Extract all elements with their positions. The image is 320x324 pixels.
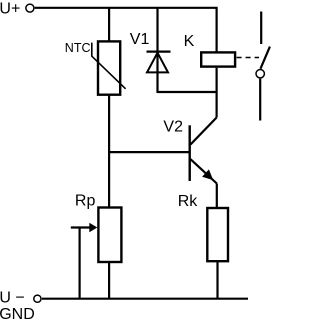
terminal U- GND bbox=[34, 295, 41, 302]
resistor NTC thermistor bbox=[92, 41, 126, 94]
Rp wiper arrow bbox=[71, 223, 98, 233]
transistor V2 bbox=[190, 118, 217, 184]
wire top rail bbox=[35, 8, 217, 52]
relay coil K bbox=[201, 52, 235, 66]
wire coil bottom to collector bbox=[216, 68, 218, 118]
svg-text:GND: GND bbox=[0, 306, 35, 323]
svg-text:V1: V1 bbox=[130, 31, 150, 48]
potentiometer Rp body bbox=[98, 208, 121, 263]
wire bottom rail bbox=[42, 298, 248, 300]
svg-text:U+: U+ bbox=[0, 1, 20, 18]
svg-text:K: K bbox=[184, 33, 195, 50]
wire Rk bottom bbox=[216, 261, 218, 299]
svg-text:V2: V2 bbox=[163, 119, 183, 136]
svg-text:U −: U − bbox=[0, 290, 25, 307]
wire NTC branch top bbox=[108, 8, 110, 42]
wire V1 anode to coil bottom node bbox=[158, 91, 217, 93]
wire base of V2 bbox=[109, 151, 189, 153]
wire contact bottom bbox=[259, 79, 261, 121]
wire Rp wiper to GND rail bbox=[78, 228, 80, 299]
svg-text:Rp: Rp bbox=[75, 193, 96, 210]
wire NTC bottom to Rp bbox=[108, 95, 110, 208]
wire emitter to Rk bbox=[216, 184, 218, 209]
resistor Rk bbox=[207, 208, 228, 261]
svg-text:Rk: Rk bbox=[178, 193, 199, 210]
wire Rp bottom bbox=[108, 262, 110, 299]
dashed link coil K to contact bbox=[237, 57, 259, 59]
wire contact top bbox=[260, 12, 262, 45]
relay contact arm bbox=[261, 47, 270, 69]
terminal U+ bbox=[26, 4, 34, 12]
svg-text:NTC: NTC bbox=[65, 41, 91, 55]
contact pivot circle bbox=[256, 70, 264, 78]
diode V1 bbox=[147, 8, 171, 93]
